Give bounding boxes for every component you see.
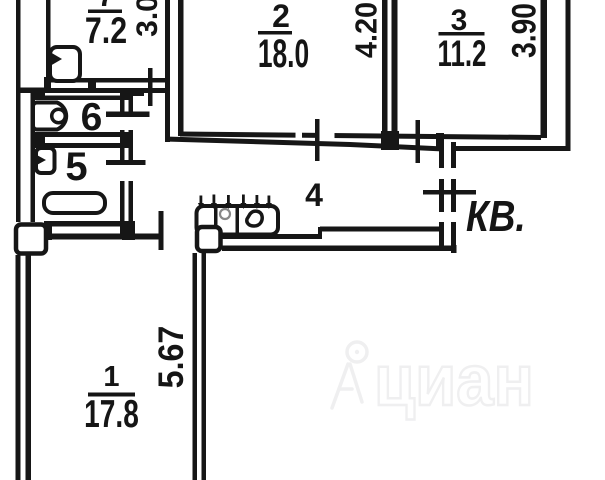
svg-text:17.8: 17.8 [84,393,139,437]
svg-text:5.67: 5.67 [153,326,192,389]
svg-text:3.90: 3.90 [504,3,543,58]
svg-text:5: 5 [65,145,87,189]
svg-text:11.2: 11.2 [438,32,487,74]
svg-text:4: 4 [305,177,323,213]
svg-text:4.20: 4.20 [349,2,383,58]
svg-text:3.0: 3.0 [131,0,164,37]
svg-text:7.2: 7.2 [85,10,127,52]
svg-text:6: 6 [81,96,103,139]
svg-text:1: 1 [103,361,119,393]
svg-text:2: 2 [272,0,290,34]
svg-text:КВ.: КВ. [466,191,526,241]
svg-text:циан: циан [374,340,534,421]
svg-text:18.0: 18.0 [258,32,309,77]
